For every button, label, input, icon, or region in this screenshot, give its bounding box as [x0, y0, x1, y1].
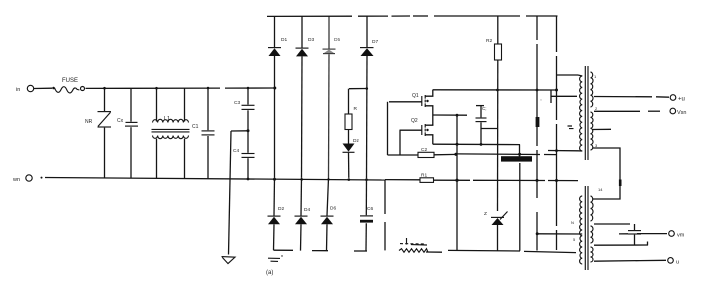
capacitor C8 (thick plate): [501, 156, 532, 161]
wire Q1 gate: [389, 101, 422, 103]
node drain rail / C5 column: [536, 89, 539, 92]
wire x556 vertical: [556, 16, 558, 52]
MOSFET Q2: [411, 118, 433, 144]
node drain rail / R2 column: [496, 89, 499, 92]
transformer T1 secondary winding upper: [591, 72, 594, 107]
wire bottom rail y=177: [45, 178, 385, 181]
wire gate-drive drop x=387.5: [387, 102, 389, 155]
wire Q1 drain rail y=90: [433, 89, 557, 91]
wire T2 left feed y=233.8: [539, 233, 583, 235]
capacitor CX: [117, 89, 138, 179]
wire R3 branch tap y=88.5: [349, 88, 367, 90]
wire drop x=385 to control: [384, 180, 386, 214]
node D7 column / R3 tap: [366, 87, 369, 90]
node D5 column / bottom rail: [327, 178, 329, 180]
blob on jumper: [619, 180, 622, 187]
diode D1: [268, 16, 287, 177]
output terminal +u: [670, 95, 685, 103]
svg-text:Vsn: Vsn: [677, 110, 686, 116]
svg-text:,,: ,,: [540, 96, 542, 101]
node dots on input rail: [103, 87, 106, 90]
node R3 branch / bottom rail: [348, 178, 351, 181]
transformer T2 right winding section 1: [591, 196, 594, 221]
svg-text:C3: C3: [234, 100, 240, 106]
node C4 / bottom rail: [247, 178, 250, 181]
node D1 column / input rail: [273, 87, 276, 90]
capacitor C2 (box style): [418, 147, 434, 158]
chassis ground mark under D2: [268, 255, 283, 261]
transformer T1 core: [585, 66, 588, 160]
svg-text:D5: D5: [334, 37, 340, 43]
wire x537 vertical: [536, 16, 538, 40]
svg-text:N: N: [571, 220, 574, 225]
svg-text:C6: C6: [367, 206, 373, 212]
wire T2 bottom output y=260: [594, 260, 640, 263]
svg-text:C4: C4: [233, 148, 239, 154]
diode D4: [295, 178, 311, 251]
output terminal -u: [668, 258, 679, 266]
transformer T1 secondary winding lower: [591, 112, 594, 150]
common-mode choke L1: [152, 88, 190, 178]
capacitor C9 output filter: [628, 224, 641, 245]
diode D5: [323, 16, 341, 178]
node x457 / bottom R1 rail: [455, 179, 458, 182]
wire ground drop: [229, 131, 232, 255]
capacitor C4: [233, 131, 255, 179]
svg-text:C1: C1: [192, 124, 199, 130]
wire top input rail y=88: [86, 87, 221, 89]
capacitor C7 column x481: [476, 106, 487, 145]
node x537 / T2 feed: [536, 232, 539, 235]
wire cap C8 feed y=153.8: [457, 153, 540, 156]
svg-text:wn: wn: [12, 177, 20, 183]
wire secondary mid stub y=129.5: [593, 128, 612, 130]
varistor NR: [85, 89, 111, 179]
svg-text:Z: Z: [484, 211, 487, 217]
diode D7: [360, 16, 378, 178]
wire from input terminal to fuse: [34, 87, 52, 89]
top DC rail y=16: [267, 15, 558, 17]
node C8 lead / y154 wire: [518, 153, 521, 156]
bottom rail y=250: [274, 250, 577, 252]
wire output vm y=233.7: [619, 233, 628, 235]
svg-text:Cx: Cx: [117, 118, 124, 124]
wire x457 vertical: [456, 115, 458, 250]
diode D8 (to bottom rail): [343, 138, 360, 178]
svg-text:14: 14: [598, 187, 603, 192]
diode D6: [321, 178, 337, 251]
svg-text:in: in: [16, 87, 20, 93]
wire Q1 source tap y=115: [433, 114, 467, 116]
node D3 column / bottom rail: [300, 178, 303, 181]
wire T2 tap y=245: [594, 244, 648, 246]
node C7 column / y144 wire: [480, 143, 483, 146]
node primary bottom / x556: [555, 149, 558, 152]
wire to C2 y=155: [388, 154, 419, 156]
transformer T2 left winding: [580, 196, 583, 264]
wire midpoint to ground drop: [231, 130, 248, 132]
transformer T1 primary winding: [580, 76, 583, 151]
svg-text:R2: R2: [486, 38, 492, 44]
tick at 647: [647, 242, 649, 246]
diode D3: [296, 16, 315, 178]
svg-text:D6: D6: [330, 206, 336, 212]
svg-text:R: R: [354, 106, 358, 112]
svg-text:Dz: Dz: [353, 138, 359, 144]
wire primary mid tap y=96.3: [551, 95, 577, 97]
node C2 lead / x457: [454, 153, 457, 156]
wire secondary tap +u y=96.5: [594, 96, 652, 98]
output terminal vm: [669, 231, 685, 239]
wire primary top stub: [578, 75, 582, 76]
svg-text:D1: D1: [281, 37, 287, 43]
wire C2 right lead: [434, 153, 457, 155]
wire Q2 source y=144: [433, 143, 520, 145]
svg-text:+u: +u: [678, 97, 685, 103]
svg-text:D3: D3: [308, 37, 314, 43]
node C3/C4 midpoint: [247, 129, 250, 132]
transformer T2 right winding section 3: [591, 247, 594, 262]
svg-text:Q1: Q1: [412, 93, 419, 99]
ground: [222, 257, 236, 264]
svg-text:Q2: Q2: [411, 118, 418, 124]
tiny marks left of core: [568, 126, 574, 129]
input terminal L (live): [16, 85, 34, 93]
node dot after N terminal: [41, 177, 43, 179]
node Q2 source / x457: [456, 143, 459, 146]
svg-text:vm: vm: [677, 233, 685, 239]
capacitor C3: [234, 88, 255, 131]
wire secondary tap Vsn y=111.5: [594, 110, 640, 112]
fuse FUSE: [52, 78, 84, 93]
input terminal N (neutral): [12, 175, 32, 183]
svg-text:D7: D7: [372, 39, 378, 45]
zener diode Z1: [484, 211, 508, 251]
wire primary bottom y=150.5: [548, 150, 578, 152]
resistor R1 (series in lower rail): [385, 173, 578, 183]
svg-text:(a): (a): [266, 270, 273, 276]
node x537 / lower rail: [536, 179, 539, 182]
resistor R2: [486, 16, 502, 211]
node D7 column / bottom rail: [365, 178, 368, 181]
node x556 / drain rail: [555, 89, 558, 92]
capacitor C1: [192, 88, 215, 179]
wire T2 tap y=224: [594, 223, 630, 225]
node x556 / lower rail: [555, 179, 558, 182]
capacitor C6: [360, 178, 373, 251]
capacitor C8 top lead: [519, 145, 521, 158]
wire Q2 gate: [400, 129, 422, 131]
svg-text:D4: D4: [304, 207, 310, 213]
wire secondary lower jumper bracket: [593, 148, 621, 199]
wire C7 to R2 column y=128.5: [481, 128, 498, 130]
svg-text:NR: NR: [85, 119, 93, 125]
wire primary top y=75: [557, 74, 579, 76]
resistor R3: [345, 89, 358, 144]
control squiggle (to PWM): [399, 238, 428, 252]
svg-text:C;: C;: [482, 106, 487, 111]
capacitor C5 blob on x537: [536, 117, 540, 127]
output terminal Vsn: [670, 108, 686, 116]
transformer T2 right winding section 2: [591, 226, 594, 243]
wire Q2 gate drop x=400: [399, 130, 401, 155]
svg-text:D2: D2: [278, 206, 284, 212]
diode D2: [268, 178, 285, 251]
node D1 column / bottom rail: [273, 178, 276, 181]
svg-text:u: u: [676, 259, 679, 265]
MOSFET Q1: [412, 90, 433, 110]
wire C8 down column x=520: [519, 163, 521, 251]
transformer T2 core: [585, 186, 588, 270]
wire Q1 source to Q2 drain x=433: [432, 110, 434, 124]
svg-text:FUSE: FUSE: [62, 78, 78, 84]
wire primary bottom stub: [578, 150, 582, 152]
